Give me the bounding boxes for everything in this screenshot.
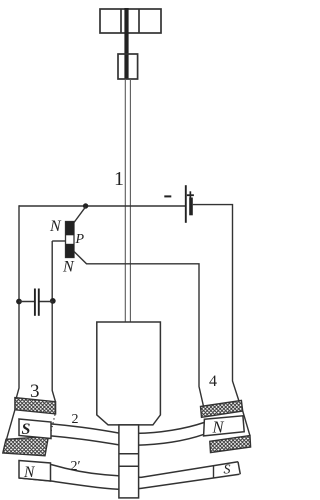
battery positive plate (189, 198, 193, 216)
svg-text:3: 3 (30, 381, 40, 402)
N electrode upper (black) (66, 222, 75, 236)
capacitor plate left (34, 289, 36, 316)
magnet 3 upper pole (hatched) (15, 398, 56, 414)
junction dot A (83, 203, 88, 208)
magnet 4 hidden edge (dotted) (205, 422, 207, 436)
rail 2prime lower arc bottom edge (19, 474, 239, 489)
rail 2prime right end cap (238, 462, 240, 475)
svg-text:S: S (224, 463, 231, 478)
pole box S (on rail 2) (19, 419, 51, 439)
capacitor wires (19, 301, 53, 303)
neck divider upper (119, 453, 139, 455)
magnet 3 left edge (7, 410, 15, 440)
wire from lower N diagonal (74, 252, 204, 407)
fiber (string) (125, 79, 130, 322)
label minus (164, 195, 171, 197)
magnet 4 lower pole (hatched) (210, 436, 251, 453)
wire battery right (193, 205, 239, 401)
svg-text:N: N (49, 218, 62, 235)
N electrode lower (black) (66, 244, 75, 258)
svg-text:N: N (62, 259, 75, 276)
pole box N (on rail 2) (204, 416, 245, 436)
junction dot B (16, 299, 22, 305)
svg-text:N: N (23, 464, 36, 481)
rail 2prime box N (left end) (19, 461, 51, 482)
magnet 3 lower pole (hatched) (3, 437, 49, 456)
capacitor plate right (38, 289, 40, 316)
svg-text:1: 1 (114, 168, 124, 190)
magnet 3 hidden edge (dotted) (50, 415, 56, 439)
rail 2 upper arc top edge (19, 422, 204, 434)
neck divider lower (119, 465, 139, 467)
wire battery left (19, 205, 185, 207)
support rod (124, 8, 128, 79)
rail 2prime divider at S (213, 466, 215, 478)
svg-text:P: P (75, 232, 85, 247)
neck (119, 425, 139, 498)
torsion head (100, 9, 161, 33)
wire diagonal to N electrode (74, 207, 86, 223)
junction dot C (50, 298, 56, 304)
battery negative plate (185, 185, 187, 223)
wire left vertical (16, 205, 19, 399)
coil body (97, 322, 161, 425)
rail 2 upper arc bottom edge (19, 434, 204, 446)
magnet 4 right edge (243, 411, 250, 436)
svg-text:2: 2 (72, 412, 79, 427)
svg-text:2′: 2′ (71, 459, 81, 474)
label plus (187, 191, 194, 199)
NPN electrode body (66, 222, 75, 258)
svg-text:S: S (22, 421, 31, 438)
wire vertical x=52 (52, 241, 55, 402)
clamp box (118, 54, 138, 79)
svg-text:4: 4 (209, 373, 217, 390)
magnet 4 upper pole (hatched) (201, 400, 243, 417)
svg-text:N: N (212, 418, 225, 437)
wire from P electrode (52, 240, 65, 242)
rail 2prime lower arc top edge (19, 462, 238, 478)
